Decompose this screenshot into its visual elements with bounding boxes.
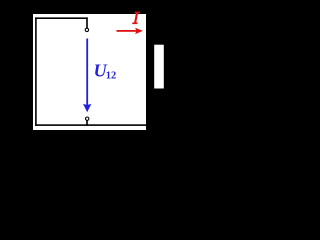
wire: bottom horizontal wire [35, 124, 146, 126]
resistor R (white box) [154, 45, 164, 89]
voltage arrow U12 shaft [86, 39, 88, 106]
wire: top terminal stub [86, 17, 88, 28]
wire: bottom terminal stub [86, 121, 88, 127]
wire: top horizontal wire [35, 17, 88, 19]
label I [132, 12, 140, 25]
white drawing canvas background [33, 14, 146, 130]
svg-text:12: 12 [106, 71, 117, 82]
voltage arrow U12 head [83, 104, 91, 113]
node 1 terminal dot [85, 28, 88, 31]
current arrow I head [135, 28, 143, 34]
current arrow I shaft [117, 30, 137, 32]
wire: left vertical wire [35, 17, 37, 125]
node 2 terminal dot [86, 117, 89, 120]
